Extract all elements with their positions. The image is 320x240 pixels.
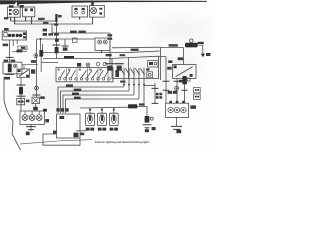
twin sockets xyxy=(98,40,108,44)
L5 top tabs xyxy=(169,101,184,103)
K2 socket xyxy=(187,78,190,81)
nested rail R3 xyxy=(63,95,134,113)
label BN left mid xyxy=(3,44,9,47)
bulb unit B1 xyxy=(86,113,95,125)
top border bar xyxy=(0,0,207,8)
twin boxes right xyxy=(194,87,201,99)
T1 top socket xyxy=(190,39,193,42)
socket beside G2 fuse xyxy=(150,117,153,120)
label 24WB xyxy=(169,44,178,46)
lamp unit box L1 (top left) xyxy=(8,7,21,17)
cluster labels xyxy=(168,60,178,93)
connector C1 contacts xyxy=(25,8,33,11)
junction dots W4 xyxy=(40,38,58,40)
wire T1 to stud xyxy=(198,45,203,54)
relay contact mark xyxy=(146,68,149,70)
label near G2 xyxy=(152,127,156,130)
stub wire left of units xyxy=(76,130,86,132)
small box at 73,38 xyxy=(73,38,77,42)
lamp L1 bulb xyxy=(13,9,19,15)
socket mid cluster xyxy=(175,86,179,90)
label box on drop xyxy=(156,93,162,99)
ticks right cluster xyxy=(163,81,188,90)
label 52 xyxy=(167,67,171,70)
right cluster verticals xyxy=(159,51,185,103)
ground G2 xyxy=(143,125,152,128)
connector box C1 (top left 2nd) xyxy=(23,7,35,17)
label 4B under stub xyxy=(80,133,84,136)
rail labels xyxy=(66,84,81,99)
component blob at 56,39 xyxy=(55,39,59,42)
socket on strand xyxy=(35,86,39,90)
twin-socket pin xyxy=(101,50,103,53)
stud 50 xyxy=(201,54,205,58)
L4 label xyxy=(45,119,49,122)
strand x36 lower xyxy=(36,86,37,111)
bulb unit stubs xyxy=(90,108,114,114)
C2 right marks xyxy=(23,32,26,38)
wire rail W4 xyxy=(37,38,96,40)
connector tick on lead xyxy=(6,56,14,58)
wire 46 drop xyxy=(55,22,57,47)
G3 blob xyxy=(176,130,181,134)
socket between rails xyxy=(86,63,90,67)
relay contact circle box xyxy=(147,72,153,78)
bank B2 junction dots xyxy=(123,84,145,86)
bank bottom rail to drop xyxy=(144,84,155,86)
U1 marks xyxy=(53,116,79,137)
tick on strand xyxy=(32,94,40,96)
bulb unit B2u xyxy=(98,113,107,125)
S1 switch blades xyxy=(60,70,108,77)
label bold W6 xyxy=(64,56,74,59)
relay coil 2 xyxy=(115,63,124,65)
wire rail W7 short xyxy=(41,62,58,64)
wire drop x36.5 xyxy=(36,39,38,86)
inline connector blob xyxy=(128,104,137,108)
connector box C3 xyxy=(17,98,25,104)
connector strip C2 (left) xyxy=(2,31,26,40)
wire with label under box xyxy=(12,51,27,53)
label 50 xyxy=(206,53,210,56)
lamp cluster box L4 (bottom left) xyxy=(20,111,44,124)
fuse label box xyxy=(18,46,27,50)
svg-text:Exterior lighting and hazard w: Exterior lighting and hazard warning lig… xyxy=(95,140,150,144)
label 4B near blob xyxy=(139,103,145,105)
lamp cluster L5 (bottom right) xyxy=(166,103,189,117)
fuse F4 xyxy=(19,87,23,94)
lamp L3 bulb xyxy=(91,8,97,14)
feed rail above bulb units xyxy=(80,106,128,109)
lamp L1 labels xyxy=(9,9,12,15)
label row above fusebox xyxy=(4,60,16,62)
lamp L2 sockets xyxy=(75,11,85,14)
page curl line xyxy=(4,77,21,150)
hazard unit box U1 (bottom) xyxy=(57,114,81,138)
lamp L3 contacts xyxy=(99,8,102,15)
connector tick mid xyxy=(52,44,60,46)
L4 bulbs xyxy=(22,115,42,121)
label 46 xyxy=(54,15,62,26)
bank B2 label xyxy=(115,70,125,83)
switch S2 box xyxy=(173,65,196,79)
label 4BN a xyxy=(38,18,48,24)
wire drop x40.5 pair xyxy=(41,39,43,50)
label 40B xyxy=(179,80,186,83)
wire rail W2 xyxy=(15,23,93,25)
label 44B xyxy=(197,42,203,44)
relay blob between rails xyxy=(77,63,81,67)
switch S3 box xyxy=(17,69,30,77)
tick below F4 xyxy=(17,95,26,97)
fuse F3 element xyxy=(8,64,12,73)
label 47B xyxy=(178,57,184,60)
tick on S3 lead xyxy=(17,84,26,86)
wire from blob xyxy=(137,105,147,117)
twin-socket box xyxy=(95,38,110,50)
capacitor body xyxy=(63,47,68,50)
mid-right drop x155 xyxy=(154,83,156,104)
ground G1 under L4 xyxy=(30,124,32,131)
S1 top sockets xyxy=(96,62,106,66)
S1 cell dividers xyxy=(67,68,109,82)
connector blob right bottom xyxy=(145,116,150,123)
nested rail R2 xyxy=(61,91,130,113)
lamp L2 pin xyxy=(79,17,81,20)
wire rail W3 xyxy=(52,32,110,34)
wire below F2 xyxy=(55,53,57,58)
bulb unit B3 xyxy=(109,113,118,125)
label 4BN x110 xyxy=(106,54,126,56)
switch bank B2 verticals xyxy=(124,68,144,105)
black connector K2 xyxy=(182,76,186,84)
relay coil 1 xyxy=(105,63,115,65)
indicator lamp on drop xyxy=(34,54,38,58)
wire drop x110 xyxy=(109,33,111,63)
cable drop 46 xyxy=(55,14,57,22)
S1 contact circles xyxy=(58,78,110,81)
S2 corner blobs xyxy=(174,65,193,76)
L4 bulb stubs xyxy=(25,111,39,115)
bank B2 blades xyxy=(120,68,144,74)
relay box K1 xyxy=(112,56,159,78)
wire elbow x52 xyxy=(51,24,53,33)
lamp L3 pin wire xyxy=(92,17,94,24)
U1 loop wire xyxy=(43,134,80,145)
S3 side box xyxy=(31,69,35,73)
wire below F1 xyxy=(40,57,42,72)
relay aux box xyxy=(148,61,158,67)
ground G3 under L5 xyxy=(176,117,178,126)
wire rail W5 47W xyxy=(43,47,184,52)
blob below comp box xyxy=(33,107,38,110)
nested rail R4 xyxy=(66,99,140,113)
label right of C3 xyxy=(26,96,45,102)
wire rail W1 xyxy=(11,20,57,22)
S3 corner blobs xyxy=(18,70,29,77)
wire drop 47B xyxy=(183,48,185,65)
connector C1 pins xyxy=(26,17,32,24)
bottom connector row blobs xyxy=(43,108,69,111)
lamp unit box L2 (top middle) xyxy=(72,6,88,17)
L5 label xyxy=(190,105,196,108)
label left of W7 xyxy=(31,60,36,63)
link wire above S3 xyxy=(22,65,38,69)
lamp L1 pins xyxy=(11,17,15,24)
nested rail R1 xyxy=(58,87,124,113)
bulb unit junction dots xyxy=(89,109,115,111)
crease line xyxy=(20,140,92,144)
label BN below F3 xyxy=(4,77,10,80)
fuse F1 on drop xyxy=(39,50,43,57)
label cluster mid xyxy=(43,29,113,40)
label 47W xyxy=(131,49,139,51)
comp box on strand xyxy=(32,97,39,103)
wire rail W6 xyxy=(43,58,112,60)
fuse F2 blob xyxy=(55,47,59,53)
label BN top left xyxy=(4,17,9,30)
C2 leads xyxy=(10,40,18,62)
lamp unit box L3 (top middle right) xyxy=(90,6,105,18)
tick below F3 xyxy=(5,73,14,75)
lamp L2 contacts xyxy=(74,8,84,10)
terminal block T1 (top right) xyxy=(185,43,198,48)
G1 blob xyxy=(26,132,30,136)
C2 sockets xyxy=(8,34,22,37)
L5 bulbs xyxy=(168,107,186,112)
lighting switch S1 box xyxy=(56,68,113,82)
socket in F3 xyxy=(14,64,18,68)
S1 header marks xyxy=(57,69,101,71)
S3 lead down xyxy=(20,77,22,111)
tick on drop xyxy=(152,88,159,103)
fuse box F3 xyxy=(3,62,22,74)
in-line capacitor symbol xyxy=(62,40,69,47)
